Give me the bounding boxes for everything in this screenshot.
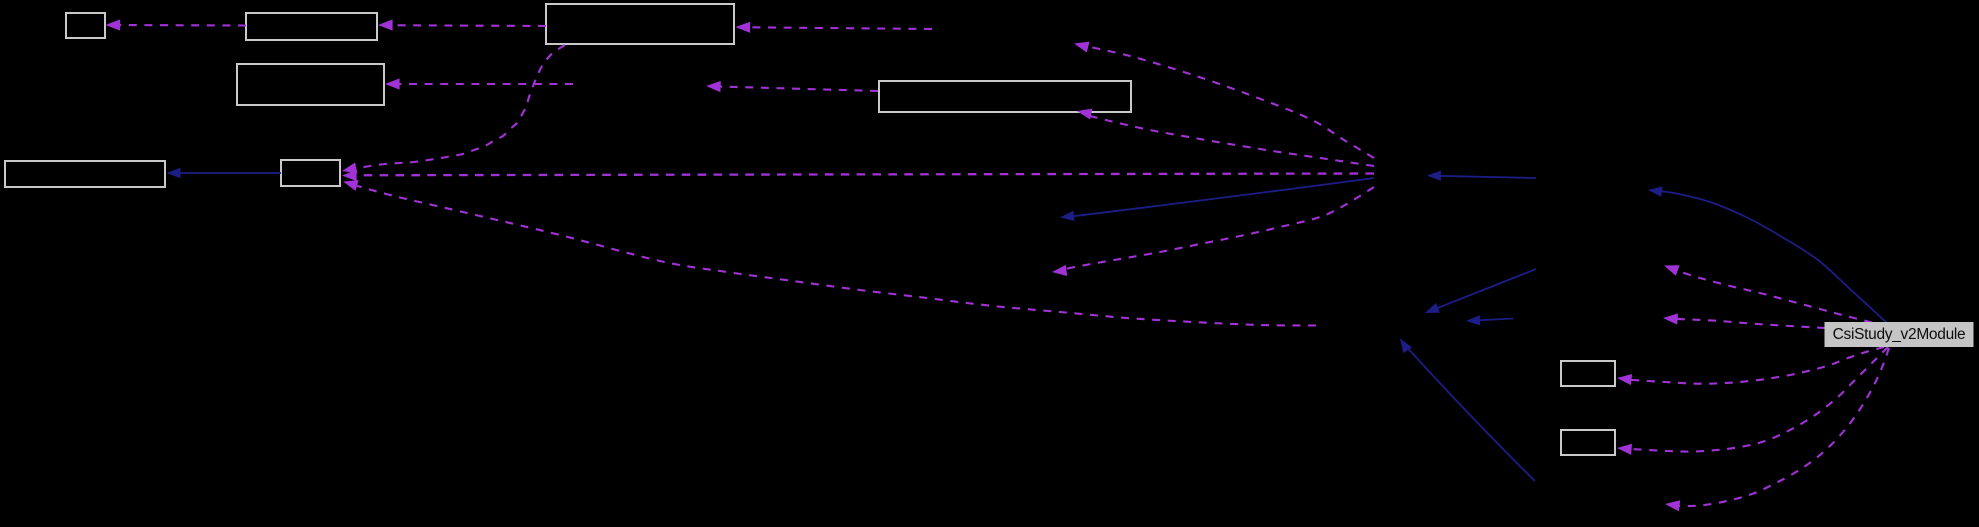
node I (small box right) — [1561, 430, 1615, 455]
node E (wide box) — [879, 81, 1131, 112]
edge hidden-node to C (dashed) — [738, 27, 933, 29]
edge fan-node to hidden-node lower (dashed curve) — [1058, 187, 1374, 271]
edge C to B (dashed) — [380, 24, 546, 27]
edge CsiStudy_v2Module to hidden-node upper-left (dashed) — [1669, 268, 1872, 323]
node B — [246, 13, 377, 40]
edge CsiStudy_v2Module to hidden-node bottom (dashed curve) — [1671, 348, 1889, 506]
edge fan-node to G (long dashed line) — [345, 174, 1374, 176]
node C (two-line box) — [546, 4, 734, 44]
edge B to A (dashed) — [108, 24, 247, 27]
edge fan-node to E bottom (dashed curve) — [1082, 114, 1374, 166]
edge CsiStudy_v2Module to hidden-node left (dashed) — [1670, 319, 1825, 328]
edge CsiStudy_v2Module to H (dashed curve) — [1624, 347, 1884, 384]
edge hidden-node to hidden-node (solid blue arc lower) — [1403, 343, 1535, 481]
node CsiStudy_v2Module (highlighted) — [1825, 323, 1973, 347]
node A (top-left small box) — [66, 13, 105, 38]
edge C to G (dashed curve) — [346, 45, 565, 170]
edge hidden-node to D (dashed) — [387, 83, 573, 85]
edge CsiStudy_v2Module to hidden-node (solid blue arc upper) — [1656, 191, 1886, 322]
edge G to F (solid blue) — [169, 172, 281, 174]
edge fan-node to hidden-node mid (solid blue) — [1065, 178, 1374, 217]
edge hidden-node to hidden-node (short solid blue) — [1469, 319, 1513, 321]
node F (wide box left) — [5, 161, 165, 187]
edge hidden-node to G (long dashed curve) — [352, 185, 1316, 326]
node D (two-line box) — [237, 64, 384, 105]
svg-text:CsiStudy_v2Module: CsiStudy_v2Module — [1833, 326, 1966, 343]
edge E to hidden-node (dashed) — [708, 86, 878, 91]
edge CsiStudy_v2Module to I (dashed curve) — [1624, 347, 1888, 452]
edge fan-node to hidden-node top (dashed curve) — [1080, 45, 1374, 158]
edge hidden-node to hidden-node (solid blue diagonal) — [1428, 269, 1536, 312]
node H (small box right) — [1561, 361, 1615, 386]
edge hidden-node to fan-node (solid blue) — [1430, 176, 1536, 178]
node G (small box) — [281, 160, 340, 186]
